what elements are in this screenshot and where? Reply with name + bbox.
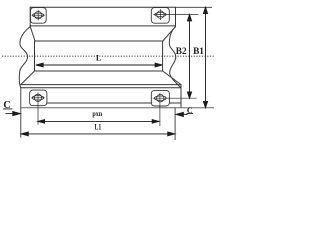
- svg-text:C: C: [3, 100, 10, 111]
- svg-text:B2: B2: [176, 47, 187, 57]
- svg-text:L: L: [96, 53, 102, 62]
- svg-text:pxn: pxn: [92, 109, 102, 118]
- svg-text:L1: L1: [95, 123, 102, 132]
- svg-text:C: C: [187, 106, 193, 115]
- svg-text:B1: B1: [193, 47, 204, 57]
